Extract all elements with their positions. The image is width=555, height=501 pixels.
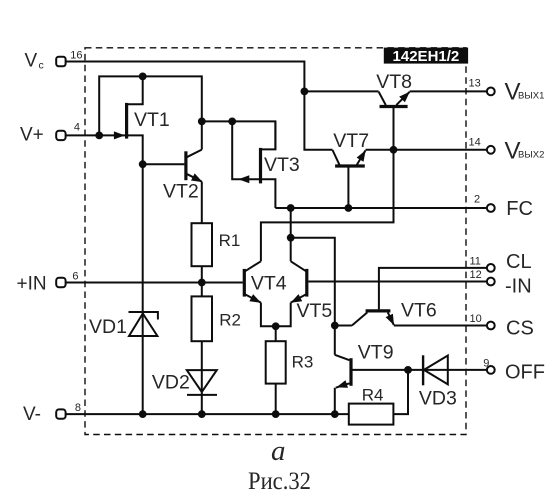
IC dashed boundary [85, 48, 466, 435]
wire VT2 collector riser [201, 121, 203, 149]
wire VD1 branch [142, 164, 144, 414]
svg-text:VT3: VT3 [264, 154, 300, 176]
terminal pin 14 [487, 146, 495, 154]
svg-text:ВЫХ1: ВЫХ1 [518, 91, 544, 102]
svg-text:CL: CL [506, 251, 532, 273]
svg-text:R2: R2 [219, 310, 241, 329]
terminal pin 6 [56, 278, 65, 287]
terminal pin 8 [56, 409, 65, 418]
transistor VT9 [335, 355, 351, 388]
wire VT8 collector from Vc node [304, 90, 378, 92]
svg-text:+IN: +IN [17, 274, 47, 295]
terminal pin 12 [487, 278, 495, 286]
arrow VT4 emitter [249, 294, 261, 303]
wire VT9 collector riser [334, 326, 336, 355]
wire VT7 emitter to pin 14 [366, 149, 487, 151]
svg-text:VT7: VT7 [333, 130, 369, 152]
terminal pin 11 [487, 264, 495, 272]
svg-text:R3: R3 [292, 353, 314, 372]
svg-text:VD1: VD1 [89, 316, 127, 338]
wire VT3 collector drop to FC [274, 121, 276, 149]
arrow VT6 emitter [386, 314, 394, 326]
svg-text:ВЫХ2: ВЫХ2 [518, 150, 544, 161]
junction dots [95, 132, 103, 140]
svg-text:V: V [25, 51, 38, 72]
wire VT7 base to FC [347, 167, 349, 208]
svg-text:14: 14 [469, 136, 481, 148]
terminal pin 13 [487, 88, 495, 96]
svg-text:VD3: VD3 [419, 388, 457, 410]
svg-text:FC: FC [506, 198, 533, 220]
wire VT9 base / OFF line to pin 9 [353, 369, 487, 371]
svg-text:13: 13 [469, 78, 481, 90]
wire VT6 collector link [335, 325, 352, 327]
transistor VT8 [379, 92, 410, 107]
transistor VT3 [259, 148, 262, 184]
wire emitter node to R3 [275, 326, 277, 341]
transistor VT6 [352, 311, 394, 326]
svg-text:Рис.32: Рис.32 [248, 468, 311, 495]
svg-text:VT9: VT9 [358, 342, 394, 364]
svg-text:c: c [39, 60, 44, 72]
svg-text:R4: R4 [362, 386, 384, 405]
wire V+ pin line [65, 134, 125, 136]
wire +IN pin line [65, 282, 243, 284]
svg-text:6: 6 [72, 271, 78, 283]
svg-text:OFF: OFF [505, 361, 545, 383]
arrow VT9 emitter [336, 380, 348, 388]
arrow VT7 emitter [357, 150, 366, 162]
svg-text:VT5: VT5 [297, 300, 333, 322]
wire Vc rail [65, 62, 332, 150]
wire VT2 base [143, 163, 185, 165]
wire -IN pin line [308, 281, 486, 283]
wire V- rail [65, 413, 349, 415]
svg-text:CS: CS [506, 317, 534, 339]
svg-text:VT4: VT4 [251, 272, 287, 294]
wire V+ vertical and top rail [99, 76, 202, 135]
wire VT3 emitter branch [232, 121, 260, 179]
svg-text:VD2: VD2 [152, 371, 190, 393]
wire diff pair emitter join [261, 303, 291, 327]
terminal pin 9 [487, 366, 495, 374]
wire VT8 emitter to pin 13 [410, 90, 487, 92]
wire VT6 base to pin 11 CL [379, 268, 486, 310]
title block 142EH1/2 [384, 48, 468, 65]
arrow VT8 emitter [399, 92, 410, 103]
diode VD3 [423, 355, 448, 385]
arrow VT2 emitter [191, 173, 203, 182]
wire FC drop node [290, 208, 292, 238]
resistor R2 [192, 296, 213, 341]
transistor VT4 [244, 261, 261, 302]
terminal pin 2 [487, 204, 495, 212]
svg-text:V-: V- [23, 404, 41, 425]
wire R3 to V- rail [275, 384, 277, 415]
wire node to VT6 branch [291, 238, 335, 326]
arrow VT1 emitter [114, 131, 125, 139]
arrow VT5 emitter [291, 294, 303, 303]
resistor R4 [349, 404, 394, 425]
wire node line y=121 [202, 121, 276, 149]
svg-text:-IN: -IN [505, 276, 532, 298]
arrow VT3 emitter [238, 175, 249, 183]
svg-text:R1: R1 [219, 231, 241, 250]
svg-text:142ЕН1/2: 142ЕН1/2 [393, 48, 460, 65]
zener diode VD1 [129, 311, 159, 336]
svg-text:а: а [271, 435, 286, 467]
transistor VT7 [333, 150, 366, 166]
terminal pin 10 [487, 322, 495, 330]
wire VT6 emitter to pin 10 CS [394, 325, 487, 327]
wire FC line to pin 2 [275, 207, 486, 209]
transistor VT5 [291, 261, 307, 302]
svg-text:VT2: VT2 [163, 181, 199, 203]
wire VT5 collector riser [290, 238, 292, 262]
wire R2 to VD2 to V- rail [201, 341, 203, 414]
transistor VT1 [125, 103, 128, 139]
wire VT1 collector jog [127, 76, 143, 104]
terminal pin 4 [56, 131, 65, 140]
resistor R3 [266, 341, 286, 383]
svg-text:11: 11 [470, 255, 481, 267]
svg-text:10: 10 [470, 313, 482, 325]
svg-text:VT6: VT6 [401, 300, 437, 322]
svg-text:VT8: VT8 [376, 71, 412, 93]
wire VT1 base jog to node A [127, 135, 143, 164]
svg-text:9: 9 [483, 357, 489, 369]
svg-text:12: 12 [470, 269, 482, 281]
svg-text:V+: V+ [20, 124, 44, 145]
svg-text:8: 8 [75, 402, 81, 414]
svg-text:VT1: VT1 [134, 109, 170, 131]
svg-text:16: 16 [70, 50, 82, 62]
diode VD2 [187, 370, 217, 395]
wire VT9 emitter drop [334, 388, 336, 414]
resistor R1 [192, 223, 213, 266]
wire VT2 emitter to R1 R2 chain [201, 182, 203, 297]
wire VT4 collector to VT8 base [261, 107, 394, 262]
wire VT3 emitter jog down to FC line [261, 179, 276, 208]
wire R4 right to base node [393, 370, 408, 414]
terminal pin 16 [56, 57, 65, 66]
svg-text:4: 4 [74, 122, 80, 134]
transistor VT2 [186, 150, 202, 182]
svg-text:2: 2 [474, 194, 480, 206]
